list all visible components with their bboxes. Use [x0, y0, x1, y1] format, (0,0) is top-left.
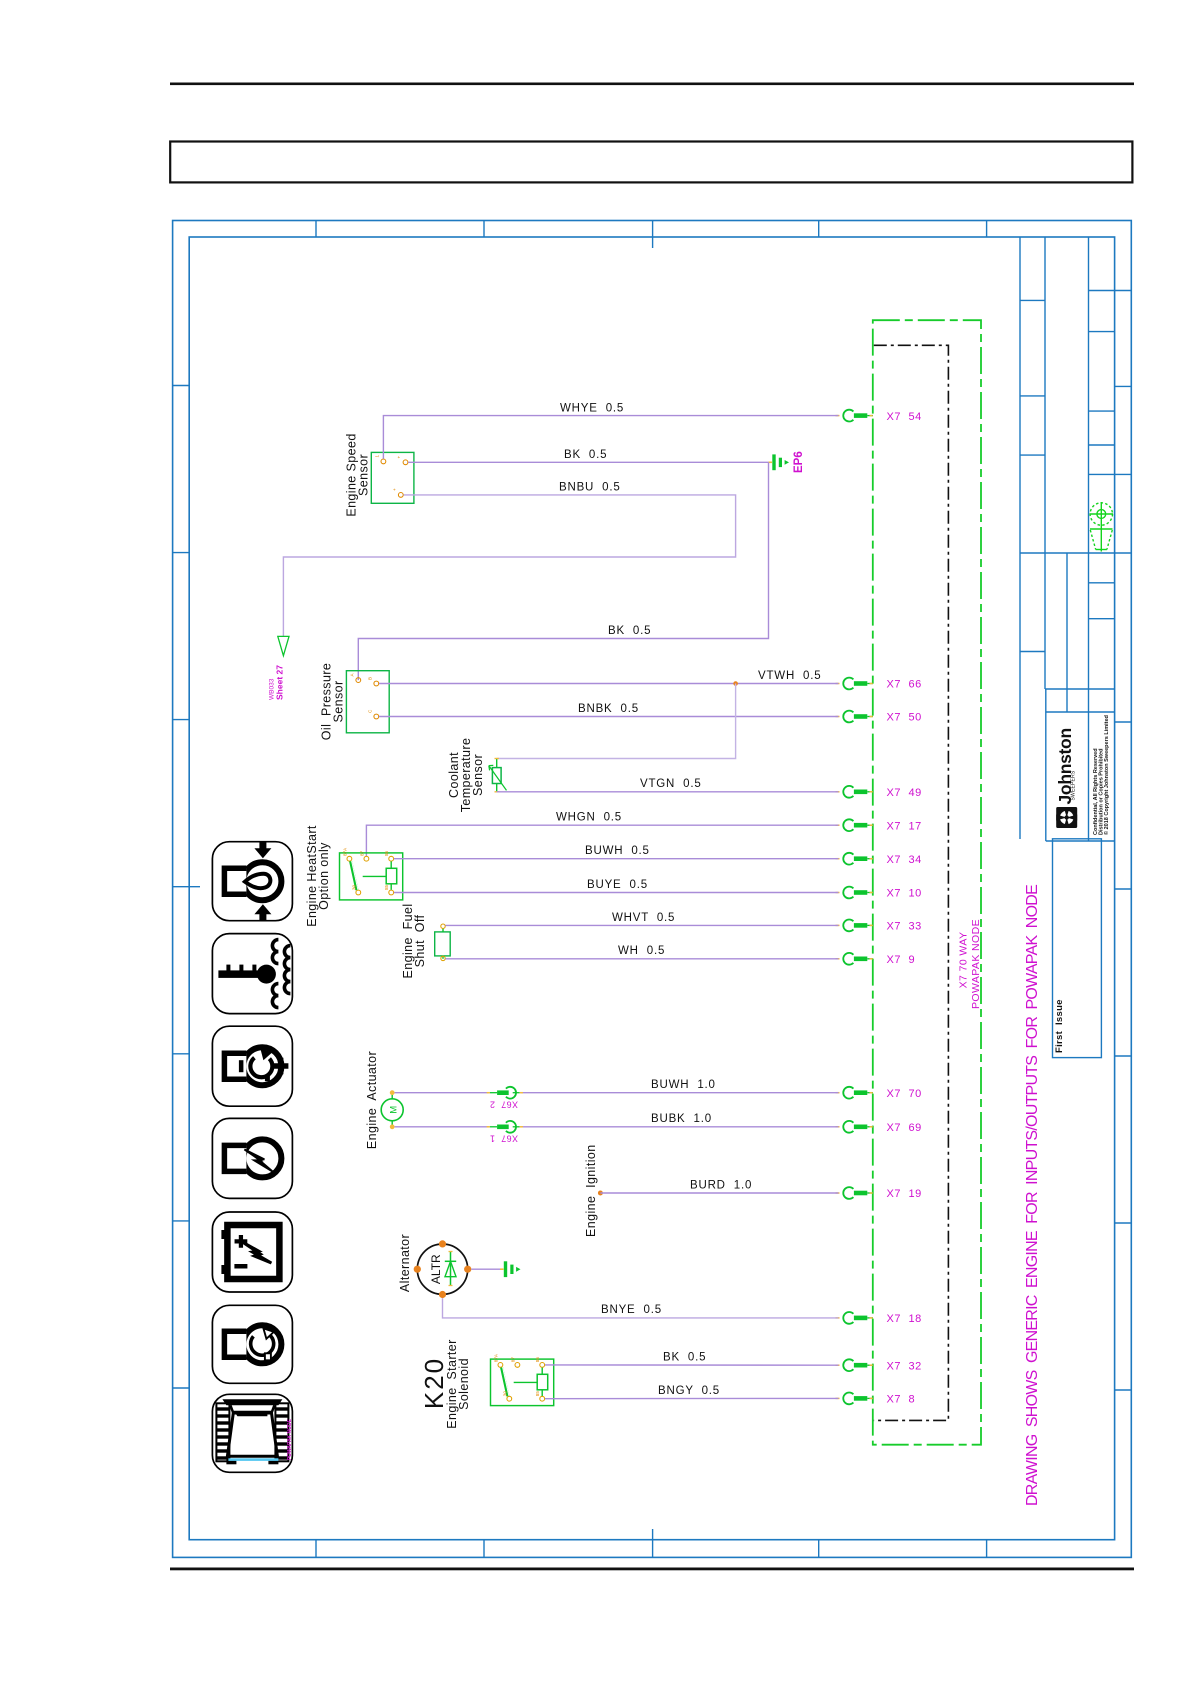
motor: Engine Actuator [365, 1051, 403, 1149]
svg-text:BNGY 0.5: BNGY 0.5 [658, 1385, 720, 1397]
relay: Engine HeatStart [305, 825, 403, 927]
svg-text:First Issue: First Issue [1054, 999, 1065, 1053]
wire alternator to ground [471, 1268, 500, 1270]
wire BURD 1.0 [600, 1179, 838, 1193]
svg-text:86: 86 [535, 1357, 540, 1363]
wire BUWH 1.0 [395, 1079, 839, 1093]
svg-text:X7 18: X7 18 [887, 1313, 922, 1325]
svg-text:X7 19: X7 19 [887, 1188, 922, 1200]
svg-text:BUYE 0.5: BUYE 0.5 [587, 879, 648, 891]
svg-text:87: 87 [511, 1357, 516, 1363]
svg-text:VTWH 0.5: VTWH 0.5 [758, 670, 821, 682]
title block row lines col C [1089, 290, 1132, 292]
svg-text:BK 0.5: BK 0.5 [663, 1352, 706, 1364]
header box [170, 142, 1132, 183]
wire BK 0.5 (starter) [545, 1352, 839, 1366]
wire WHYE 0.5 [383, 403, 838, 459]
top rule [170, 83, 1134, 86]
alternator ALTR [398, 1234, 471, 1298]
svg-text:X7 10: X7 10 [887, 888, 922, 900]
wire BNBK 0.5 [379, 703, 839, 717]
node name [958, 919, 983, 1009]
svg-text:X7 49: X7 49 [887, 787, 922, 799]
wire VTGN 0.5 [497, 778, 839, 792]
svg-text:Solenoid: Solenoid [457, 1358, 471, 1410]
sensor: Coolant Temperature Sensor (thermistor) [447, 738, 507, 813]
svg-text:ALTR: ALTR [429, 1254, 443, 1284]
ground EP6 [769, 451, 806, 473]
wire BUWH 0.5 [394, 845, 839, 859]
connector pin X7 18 [836, 1312, 922, 1325]
wire BNBU 0.5 (to sheet 27) [283, 482, 735, 637]
wire WHGN 0.5 [366, 812, 838, 857]
svg-text:POWAPAK NODE: POWAPAK NODE [287, 1418, 293, 1460]
frame inner [189, 237, 1114, 1540]
svg-text:+: + [392, 488, 397, 491]
wire WH 0.5 [445, 945, 838, 959]
connector pin X7 17 [836, 819, 922, 832]
bottom rule [170, 1568, 1134, 1571]
connector pin X7 34 [836, 853, 922, 866]
wire BK 0.5 (speed sensor to EP6) [408, 449, 768, 463]
Johnston logo block [1055, 728, 1077, 828]
wire VTWH 0.5 [379, 670, 839, 684]
svg-text:X67 2: X67 2 [490, 1100, 518, 1110]
connector pin X7 19 [836, 1187, 922, 1200]
svg-text:87: 87 [360, 850, 365, 856]
svg-text:BNBU 0.5: BNBU 0.5 [559, 482, 621, 494]
svg-text:BUWH 1.0: BUWH 1.0 [651, 1079, 716, 1091]
svg-text:X7 69: X7 69 [887, 1122, 922, 1134]
icon: powapak node engine [212, 1394, 293, 1472]
svg-text:VTGN 0.5: VTGN 0.5 [640, 778, 702, 790]
icon: engine run/start [212, 1305, 292, 1383]
svg-text:Shut Off: Shut Off [413, 915, 427, 968]
title block major dividers [1020, 552, 1131, 554]
svg-text:X7 50: X7 50 [887, 712, 922, 724]
copyright text [1093, 715, 1110, 835]
icon: engine electrics [212, 1118, 292, 1198]
svg-text:X7 8: X7 8 [887, 1394, 916, 1406]
swirl glyph [1056, 807, 1077, 828]
svg-text:X7 34: X7 34 [887, 854, 922, 866]
solenoid: Engine Fuel Shut Off [401, 904, 450, 979]
connector pin X7 50 [836, 711, 922, 724]
svg-text:X7 70 WAY: X7 70 WAY [958, 932, 970, 989]
connector pin X7 66 [836, 678, 922, 691]
svg-text:86: 86 [384, 850, 389, 856]
frame ticks [173, 221, 1132, 1558]
frame outer [173, 221, 1132, 1558]
svg-text:87A: 87A [343, 847, 348, 856]
sensor: Engine Speed Sensor [345, 433, 414, 516]
svg-text:1: 1 [375, 455, 380, 458]
sensor: Oil Pressure Sensor [320, 663, 390, 740]
wire BNYE 0.5 [443, 1298, 839, 1318]
svg-text:B: B [368, 677, 373, 680]
svg-text:BNBK 0.5: BNBK 0.5 [578, 703, 639, 715]
svg-text:WHYE 0.5: WHYE 0.5 [560, 403, 624, 415]
svg-text:© 2018 Copyright Johnston Swee: © 2018 Copyright Johnston Sweepers Limit… [1103, 715, 1110, 835]
svg-text:Sensor: Sensor [332, 680, 346, 722]
svg-text:WH 0.5: WH 0.5 [618, 945, 665, 957]
POWAPAK node inner black dash-dot [874, 345, 949, 1420]
svg-text:BNYE 0.5: BNYE 0.5 [601, 1304, 662, 1316]
connector pin X7 70 [836, 1087, 922, 1100]
connector pin X67 1 [487, 1121, 523, 1144]
svg-text:85: 85 [384, 884, 389, 890]
icon: engine actuator adjust [212, 1026, 292, 1106]
svg-text:X67 1: X67 1 [490, 1134, 518, 1144]
svg-text:BK 0.5: BK 0.5 [608, 625, 651, 637]
svg-text:X7 17: X7 17 [887, 820, 922, 832]
svg-text:M: M [389, 1106, 400, 1114]
svg-text:X7 32: X7 32 [887, 1360, 922, 1372]
connector pin X7 32 [836, 1359, 922, 1372]
svg-text:Sensor: Sensor [471, 754, 485, 796]
first issue box [1053, 839, 1102, 1058]
svg-text:WHGN 0.5: WHGN 0.5 [556, 812, 622, 824]
wire BK 0.5 (oil pressure to EP6) [358, 462, 768, 680]
svg-text:+: + [397, 456, 402, 459]
icon: engine heatstart (glow) [212, 842, 292, 921]
node junction on VTWH [733, 681, 738, 686]
svg-text:30: 30 [503, 1391, 508, 1397]
svg-text:Engine Actuator: Engine Actuator [365, 1051, 379, 1149]
svg-text:Option only: Option only [317, 842, 331, 910]
projection symbol [1090, 502, 1113, 552]
wire BNGY 0.5 [545, 1385, 839, 1399]
svg-text:X7 66: X7 66 [887, 679, 922, 691]
svg-text:X7 54: X7 54 [887, 411, 922, 423]
wire BUBK 1.0 [395, 1113, 839, 1127]
wire WHVT 0.5 [445, 912, 838, 926]
connector pin X7 69 [836, 1121, 922, 1134]
svg-text:Engine Ignition: Engine Ignition [584, 1144, 598, 1237]
svg-text:X7 70: X7 70 [887, 1088, 922, 1100]
svg-text:WHVT 0.5: WHVT 0.5 [612, 912, 675, 924]
svg-text:87A: 87A [494, 1353, 499, 1362]
svg-text:BUWH 0.5: BUWH 0.5 [585, 845, 650, 857]
svg-text:X7 33: X7 33 [887, 921, 922, 933]
connector pin X7 10 [836, 887, 922, 900]
svg-text:DRAWING SHOWS GENERIC ENGIN: DRAWING SHOWS GENERIC ENGINE FOR INPUTS/… [1024, 885, 1041, 1506]
node: Engine Ignition feed [584, 1144, 603, 1237]
svg-text:85: 85 [535, 1391, 540, 1397]
connector pin X7 54 [836, 410, 922, 423]
relay K20 Engine Starter Solenoid [419, 1339, 554, 1428]
ground (alternator) [500, 1261, 521, 1277]
connector pin X67 2 [487, 1087, 523, 1110]
svg-text:Sheet 27: Sheet 27 [275, 665, 285, 700]
svg-text:POWAPAK NODE: POWAPAK NODE [970, 919, 982, 1009]
svg-text:30: 30 [352, 884, 357, 890]
icon: battery [212, 1212, 292, 1292]
wire BUYE 0.5 [394, 879, 839, 893]
connector pin X7 49 [836, 786, 922, 799]
svg-text:EP6: EP6 [793, 451, 805, 473]
connector pin X7 8 [836, 1393, 916, 1406]
svg-text:X7 9: X7 9 [887, 954, 916, 966]
svg-text:BK 0.5: BK 0.5 [564, 449, 607, 461]
wire coolant sensor riser [497, 684, 736, 759]
icon: coolant temperature [212, 934, 292, 1014]
connector pin X7 9 [836, 953, 916, 966]
off-sheet arrow WB033 Sheet 27 [269, 636, 290, 700]
title block row lines col A [1020, 299, 1045, 301]
svg-text:Alternator: Alternator [398, 1234, 412, 1292]
svg-text:Sensor: Sensor [357, 454, 371, 496]
POWAPAK node boundary green [873, 320, 981, 1445]
svg-text:SWEEPERS: SWEEPERS [1071, 770, 1077, 800]
title block columns upper [1019, 237, 1021, 839]
svg-text:BUBK 1.0: BUBK 1.0 [651, 1113, 712, 1125]
svg-text:BURD 1.0: BURD 1.0 [690, 1179, 752, 1191]
connector pin X7 33 [836, 920, 922, 933]
